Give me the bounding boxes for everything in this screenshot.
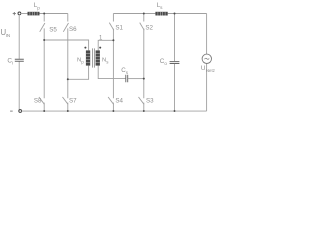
- wire bottom rail: [22, 110, 207, 112]
- switch S3 blade: [139, 97, 145, 104]
- node bottom rail leg B: [67, 110, 69, 112]
- inductor Ls: [155, 12, 167, 16]
- AC tilde: [204, 58, 209, 59]
- input terminal +: [18, 12, 21, 15]
- node top rail leg A: [43, 13, 45, 15]
- switch S4 blade: [108, 97, 114, 104]
- svg-text:s: s: [160, 5, 163, 10]
- switch S7 blade: [63, 97, 69, 104]
- polarity dot primary: [84, 47, 86, 49]
- capacitor Co: [170, 62, 180, 64]
- node bottom rail Co: [174, 110, 176, 112]
- svg-text:S7: S7: [69, 97, 77, 104]
- wire load branch: [206, 14, 208, 112]
- svg-text:S3: S3: [146, 98, 154, 105]
- AC source circle: [202, 54, 211, 63]
- svg-text:S2: S2: [145, 24, 153, 31]
- wire secondary bottom link: [98, 66, 125, 79]
- wire secondary top link: [98, 40, 113, 50]
- minus sign: [10, 110, 13, 112]
- wire leg D: [143, 14, 145, 112]
- node bottom rail leg A: [43, 110, 45, 112]
- wire leg A: [43, 14, 45, 112]
- svg-text:S1: S1: [115, 24, 123, 31]
- node Cs leg D: [143, 78, 145, 80]
- svg-text:S6: S6: [69, 26, 77, 33]
- switch S2 blade: [140, 23, 145, 31]
- wire Ci branch: [18, 15, 20, 111]
- wire top rail after Lp: [40, 13, 68, 15]
- inductor Lp: [28, 12, 40, 16]
- svg-text:S8: S8: [34, 97, 42, 104]
- transformer core: [93, 48, 95, 67]
- wire top rail secondary: [113, 13, 206, 15]
- capacitor Ci: [15, 59, 24, 61]
- plus sign: [13, 12, 16, 15]
- svg-text:S4: S4: [115, 98, 123, 105]
- node bottom rail leg D: [143, 110, 145, 112]
- switch S1 blade: [109, 23, 114, 31]
- svg-text:S5: S5: [49, 27, 57, 34]
- switch S8 blade: [39, 97, 45, 104]
- wire leg B: [67, 14, 69, 112]
- wire Cs to leg D: [128, 78, 144, 80]
- wire leg C: [112, 14, 114, 112]
- wire top rail left: [21, 13, 28, 15]
- svg-text:p: p: [37, 6, 40, 11]
- svg-text:o: o: [164, 61, 167, 66]
- node primary bottom leg B: [67, 78, 69, 80]
- wire primary top link: [44, 40, 88, 50]
- svg-text:IN: IN: [6, 33, 11, 38]
- wire primary bottom link: [68, 66, 89, 80]
- transformer winding Ns: [96, 50, 100, 65]
- switch S5 blade: [40, 23, 45, 32]
- switch S6 blade: [63, 23, 68, 32]
- node top rail leg D: [143, 13, 145, 15]
- transformer winding Np: [86, 50, 90, 65]
- svg-text:s: s: [126, 70, 129, 75]
- input terminal -: [19, 110, 22, 113]
- node bottom rail leg C: [112, 110, 114, 112]
- svg-text:p: p: [81, 59, 84, 64]
- node primary top leg A: [43, 39, 45, 41]
- capacitor Cs: [126, 75, 128, 83]
- wire Co branch: [174, 14, 176, 112]
- node secondary top leg C: [112, 39, 114, 41]
- svg-text:Netz: Netz: [206, 68, 215, 73]
- svg-text:s: s: [106, 60, 109, 65]
- polarity dot secondary: [99, 47, 101, 49]
- node top rail Co: [174, 13, 176, 15]
- svg-text:i: i: [12, 60, 13, 65]
